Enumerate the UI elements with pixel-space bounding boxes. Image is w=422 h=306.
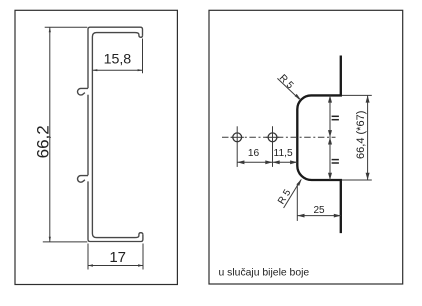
leader R5 bottom bbox=[284, 180, 301, 208]
equality label upper bbox=[332, 115, 339, 117]
dim 66,2 line bbox=[49, 27, 51, 241]
right panel frame bbox=[209, 10, 403, 284]
svg-text:16: 16 bbox=[248, 148, 260, 159]
dim 25 line bbox=[297, 215, 341, 217]
svg-text:66,4 (*67): 66,4 (*67) bbox=[355, 111, 367, 159]
equality dim line bbox=[329, 95, 331, 180]
svg-text:15,8: 15,8 bbox=[104, 51, 132, 67]
profile bottom outer contour bbox=[88, 181, 143, 241]
svg-text:11,5: 11,5 bbox=[274, 148, 293, 159]
svg-text:25: 25 bbox=[313, 205, 325, 216]
dim 17 extension left bbox=[87, 244, 89, 270]
dim 66,4 extension top bbox=[342, 94, 372, 96]
profile top lip tip and inner contour bbox=[92, 33, 142, 238]
dim 15,8 line bbox=[92, 69, 142, 71]
hole circle left bbox=[233, 133, 242, 142]
crosshair hole left bbox=[236, 126, 238, 167]
profile outer contour bbox=[88, 27, 143, 88]
dim 25 extension left bbox=[296, 184, 298, 221]
wall segment between hooks bbox=[87, 95, 89, 176]
dim 17 line bbox=[88, 265, 143, 267]
hook clip lower bbox=[78, 176, 88, 183]
hole circle right bbox=[268, 133, 277, 142]
dim 16 / 11,5 line bbox=[237, 161, 297, 163]
equality label lower bbox=[332, 159, 339, 161]
leader R5 top bbox=[277, 78, 299, 99]
dim 17 extension right bbox=[142, 244, 144, 270]
hook clip upper bbox=[78, 88, 88, 95]
dim 15,8 extension right bbox=[142, 39, 144, 74]
svg-text:u slučaju bijele boje: u slučaju bijele boje bbox=[219, 268, 310, 279]
left panel frame bbox=[15, 10, 177, 284]
dim 66,2 extension top bbox=[45, 26, 88, 28]
crosshair hole right bbox=[272, 126, 274, 167]
dim 66,2 extension bottom bbox=[43, 241, 88, 243]
centerline dashed bbox=[222, 136, 336, 138]
dim 66,4 line bbox=[367, 95, 369, 180]
dim 66,4 extension bottom bbox=[342, 179, 372, 181]
svg-text:17: 17 bbox=[109, 249, 126, 266]
svg-text:66,2: 66,2 bbox=[33, 125, 52, 158]
bracket profile thick outline bbox=[297, 56, 341, 234]
